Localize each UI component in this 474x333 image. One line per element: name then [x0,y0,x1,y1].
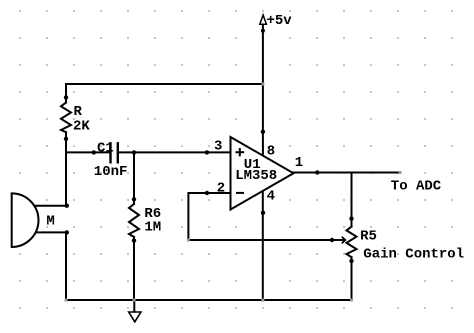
svg-text:4: 4 [267,189,275,205]
svg-text:Gain Control: Gain Control [363,247,464,263]
svg-text:+5v: +5v [267,13,293,29]
svg-text:1: 1 [295,155,303,171]
svg-text:M: M [46,214,54,230]
svg-text:2: 2 [217,181,225,197]
svg-text:8: 8 [267,143,275,159]
svg-text:R5: R5 [360,228,377,244]
svg-text:3: 3 [214,138,222,154]
svg-text:C1: C1 [97,140,114,156]
svg-text:LM358: LM358 [235,168,277,184]
svg-text:10nF: 10nF [94,164,128,180]
svg-text:R: R [74,104,83,120]
svg-text:1M: 1M [144,219,161,235]
svg-text:2K: 2K [73,119,90,135]
svg-text:To ADC: To ADC [391,179,442,195]
